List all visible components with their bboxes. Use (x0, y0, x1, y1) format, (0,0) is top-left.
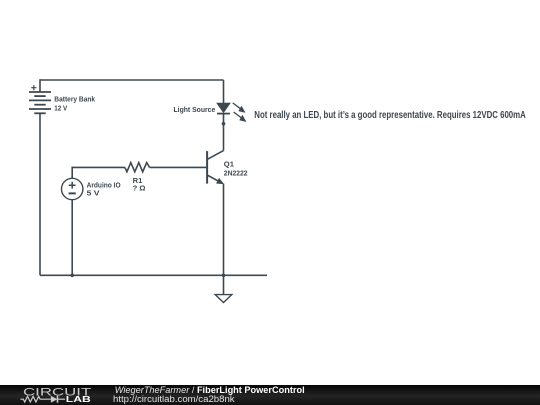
voltage source V1 circle (61, 178, 82, 199)
svg-text:2N2222: 2N2222 (224, 168, 248, 177)
resistor label R1 ? ohm (133, 176, 146, 193)
ground symbol (215, 295, 232, 303)
battery label Battery Bank 12 V (54, 94, 95, 112)
wire source top vertical (71, 167, 73, 179)
LED D1 cathode bar (217, 113, 230, 115)
CircuitLab logo CIRCUIT text (23, 386, 92, 398)
LED D1 emission arrow 1 (233, 103, 245, 112)
wire resistor to transistor base (150, 166, 208, 168)
transistor Q1 emitter diagonal with arrow (207, 175, 223, 184)
voltage source V1 plus sign (69, 182, 76, 189)
wire from top rail down to LED anode (223, 80, 225, 103)
CircuitLab logo LAB text (66, 394, 91, 404)
footer title WiegerTheFarmer / FiberLight PowerControl (115, 385, 305, 395)
transistor Q1 base bar (206, 151, 208, 184)
node junction dot below LED (222, 122, 226, 126)
transistor Q1 collector diagonal (207, 151, 223, 160)
svg-text:12 V: 12 V (54, 104, 68, 113)
battery V2 plus polarity mark (31, 85, 36, 90)
battery V2 Battery Bank 12V plates (29, 92, 51, 113)
wire source bottom vertical to bottom rail (71, 200, 73, 276)
resistor R1 zigzag (125, 163, 150, 172)
svg-text:Battery Bank: Battery Bank (54, 94, 95, 103)
wire top rail from battery to LED (40, 79, 224, 81)
node junction dot source to rail (70, 274, 74, 278)
footer black bar (0, 385, 540, 405)
svg-text:Light Source: Light Source (174, 105, 216, 114)
voltage source label Arduino IO 5 V (87, 181, 121, 198)
wire battery negative terminal down to bottom rail (39, 113, 41, 275)
annotation text about LED (254, 110, 526, 121)
svg-text:LAB: LAB (66, 394, 91, 404)
svg-text:Not really an LED, but it’s a: Not really an LED, but it’s a good repre… (254, 110, 526, 121)
footer url http://circuitlab.com/ca2b8nk (113, 394, 235, 405)
wire emitter down to bottom rail (223, 184, 225, 276)
voltage source V1 minus sign (69, 192, 76, 194)
CircuitLab logo resistor-diode squiggle (21, 396, 66, 403)
svg-text:5 V: 5 V (87, 188, 101, 197)
node junction dot emitter to rail (222, 274, 226, 278)
wire LED cathode to transistor collector (223, 114, 225, 151)
wire battery positive terminal (39, 79, 41, 92)
wire rail to ground (223, 275, 225, 294)
svg-text:http://circuitlab.com/ca2b8nk: http://circuitlab.com/ca2b8nk (113, 394, 235, 405)
transistor Q1 label Q1 2N2222 (224, 160, 248, 178)
LED D1 Light Source triangle (217, 103, 230, 112)
LED D1 emission arrow 2 (234, 112, 246, 121)
LED label Light Source (174, 105, 216, 114)
wire from source top corner to resistor (72, 166, 125, 168)
svg-text:? Ω: ? Ω (133, 184, 146, 193)
wire bottom rail (40, 274, 267, 276)
svg-text:Q1: Q1 (224, 160, 235, 169)
